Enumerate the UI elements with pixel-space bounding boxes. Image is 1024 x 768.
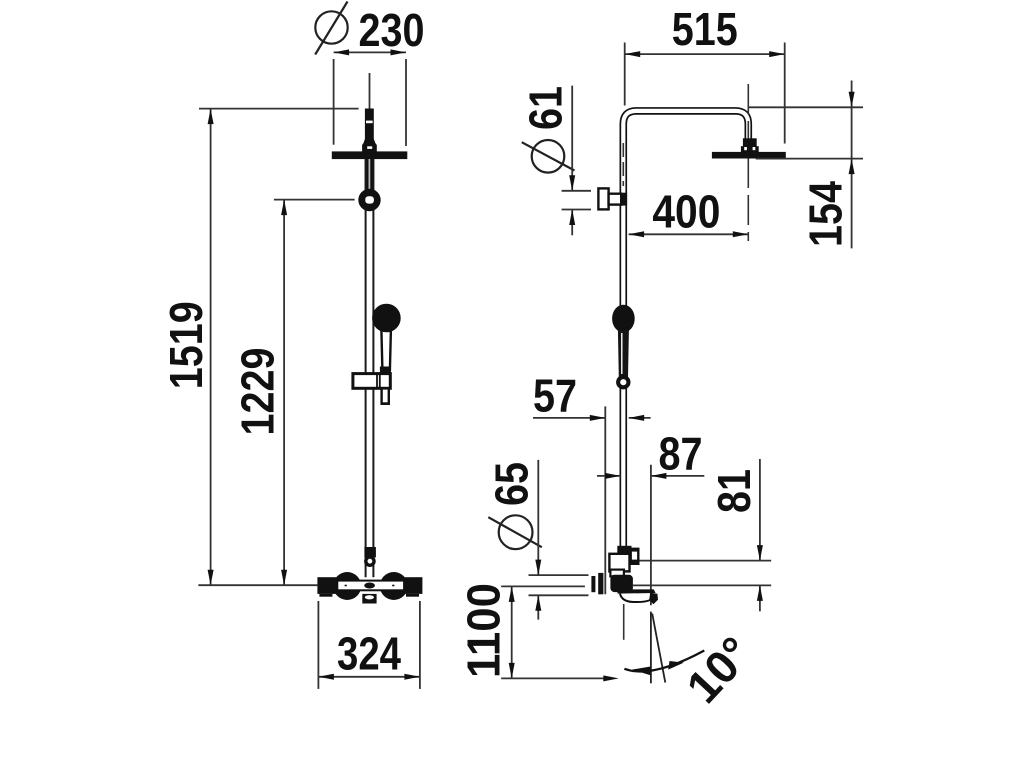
handle knob ring bbox=[616, 375, 630, 389]
diameter symbol for 61 bbox=[522, 140, 575, 173]
dimension 154 vertical line bbox=[851, 81, 853, 249]
svg-text:515: 515 bbox=[672, 3, 738, 55]
valve bottom outlet bbox=[362, 594, 376, 604]
overhead shower plate (side) bbox=[712, 152, 786, 159]
extension lines 230 bbox=[334, 59, 406, 146]
diameter symbol for 65 bbox=[488, 515, 542, 549]
valve step bbox=[610, 570, 624, 577]
top stem rod bbox=[365, 109, 374, 140]
dimension line 324 bbox=[318, 676, 420, 678]
dimension 324 extension lines bbox=[318, 601, 420, 689]
dimension 1229 vertical line bbox=[283, 200, 285, 586]
arc arrowhead left bbox=[632, 667, 651, 676]
svg-text:1519: 1519 bbox=[160, 301, 212, 389]
extension lines 515 bbox=[625, 43, 785, 144]
dimension 154 reference lines bbox=[749, 107, 863, 158]
top stem thin line bbox=[369, 73, 371, 109]
10 degree arc bbox=[624, 651, 704, 672]
valve upper outlet block bbox=[630, 548, 640, 565]
head centerline (dashed axis) bbox=[747, 84, 749, 241]
rail knob bbox=[358, 189, 380, 211]
riser pipe with top bend (outline) bbox=[623, 111, 748, 547]
svg-text:57: 57 bbox=[533, 370, 577, 422]
bath spout underside curve bbox=[620, 594, 650, 602]
svg-text:154: 154 bbox=[800, 181, 852, 247]
bath spout tip bbox=[649, 593, 658, 604]
dimension 1229 top line bbox=[274, 199, 355, 201]
dimension line 400 bbox=[629, 233, 749, 235]
valve nut (side) bbox=[617, 546, 631, 554]
valve main body (side) bbox=[610, 575, 633, 592]
hand shower head (front) bbox=[372, 304, 401, 333]
dimension 65 vertical line with arrows bbox=[529, 460, 589, 620]
connector ring bbox=[364, 555, 376, 567]
baseline at valve level bbox=[198, 584, 317, 586]
svg-text:1100: 1100 bbox=[458, 583, 510, 678]
svg-text:324: 324 bbox=[337, 628, 401, 680]
dimension 81 vertical line bbox=[759, 459, 761, 611]
rail bottom connector bbox=[364, 547, 376, 558]
dimension line 515 bbox=[625, 53, 785, 55]
extension line 87 bbox=[650, 465, 652, 606]
10 degree vertical reference line bbox=[650, 612, 652, 684]
dimension 1519 vertical line bbox=[210, 109, 212, 586]
arc arrowhead right bbox=[668, 661, 684, 670]
10 degree tilted line bbox=[652, 614, 665, 683]
extension line 57 bbox=[604, 406, 606, 594]
dimension 1519 top line bbox=[199, 108, 359, 110]
hand shower head (side) bbox=[612, 305, 635, 333]
svg-text:400: 400 bbox=[652, 185, 720, 237]
dimension 81 reference lines bbox=[633, 561, 771, 586]
valve white band bbox=[337, 581, 404, 591]
shower rail (double line) bbox=[366, 159, 374, 577]
pipe centerline dashes bbox=[622, 143, 624, 186]
svg-text:1229: 1229 bbox=[232, 348, 284, 436]
hand shower handle tip bbox=[382, 388, 389, 403]
dimension 61 vertical line with arrows bbox=[562, 86, 591, 236]
valve right end cap bbox=[405, 577, 423, 594]
hand shower clamp joint bbox=[380, 367, 391, 378]
overhead shower plate (front) bbox=[332, 151, 408, 159]
svg-text:65: 65 bbox=[486, 462, 538, 506]
valve band tick marks bbox=[345, 585, 347, 587]
dimension 1100 reference lines bbox=[501, 586, 608, 678]
hand shower handle (side) bbox=[618, 330, 629, 377]
diameter symbol for 230 bbox=[315, 2, 347, 55]
dimension 57 lines and arrows bbox=[533, 417, 651, 419]
wall union bars bbox=[591, 576, 595, 592]
valve center nub bbox=[364, 583, 375, 589]
dimension 1100 vertical line bbox=[511, 586, 513, 678]
head connector nut bbox=[743, 138, 757, 152]
svg-text:230: 230 bbox=[359, 4, 425, 56]
hand shower handle (front) bbox=[381, 330, 391, 370]
wall supply bracket bbox=[598, 188, 608, 209]
dimension 87 lines and arrows bbox=[597, 475, 704, 477]
dimension line 230 bbox=[334, 51, 406, 53]
centerline below valve bbox=[623, 604, 625, 640]
valve left knob bbox=[333, 572, 361, 600]
slider bracket bbox=[353, 374, 390, 389]
svg-text:61: 61 bbox=[519, 86, 571, 130]
cone nut bbox=[362, 139, 377, 152]
upper pipe segment below plate bbox=[365, 159, 374, 192]
svg-text:81: 81 bbox=[708, 469, 760, 513]
svg-text:87: 87 bbox=[659, 427, 703, 479]
valve upper body (side) bbox=[609, 554, 629, 572]
valve right knob bbox=[380, 572, 408, 600]
valve left end cap bbox=[317, 577, 337, 594]
bath spout top bbox=[618, 589, 656, 593]
